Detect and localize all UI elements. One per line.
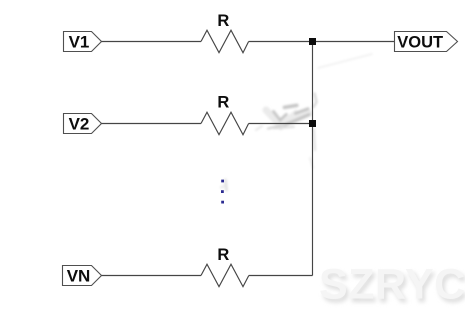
wire R1 to VOUT node: [249, 41, 395, 43]
resistor R2: [201, 112, 249, 135]
svg-text:R: R: [217, 246, 229, 264]
svg-text:V1: V1: [69, 33, 90, 52]
port V1: [64, 32, 102, 52]
wire V2 to R2: [102, 123, 202, 125]
port V2: [64, 114, 102, 134]
port VOUT: [395, 32, 458, 52]
wire V1 to R1: [102, 41, 202, 43]
wire vertical bus to VOUT node: [312, 42, 314, 276]
svg-text:V2: V2: [69, 115, 90, 134]
resistor R3: [201, 264, 249, 287]
resistor R1: [201, 30, 249, 53]
svg-text:SZRYC: SZRYC: [319, 261, 465, 309]
wire R3 to bus corner: [249, 275, 313, 277]
port VN: [63, 266, 102, 286]
svg-text:R: R: [217, 12, 229, 30]
wire VN to R3: [102, 275, 202, 277]
svg-text:R: R: [217, 94, 229, 112]
junction at bus (R2): [309, 120, 316, 127]
svg-text:VOUT: VOUT: [397, 34, 443, 52]
ellipsis node (more inputs): [221, 180, 224, 204]
junction at VOUT node (R1/bus): [309, 38, 316, 45]
wire R2 to bus: [249, 123, 313, 125]
svg-text:VN: VN: [67, 267, 91, 286]
